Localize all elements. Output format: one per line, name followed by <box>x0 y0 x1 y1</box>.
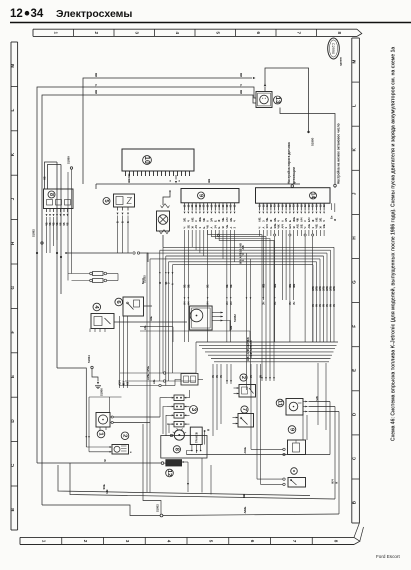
svg-text:А: А <box>172 283 175 285</box>
svg-text:Ж: Ж <box>334 218 337 221</box>
svg-text:Б: Б <box>202 227 206 229</box>
svg-text:5: 5 <box>208 540 213 543</box>
svg-text:З/Б: З/Б <box>229 218 233 222</box>
svg-text:Ж/Б: Ж/Б <box>247 356 250 361</box>
svg-text:Ч/К: Ч/К <box>202 217 206 222</box>
svg-text:12: 12 <box>10 8 23 20</box>
svg-text:ЗЧ: ЗЧ <box>273 301 277 305</box>
svg-text:3: 3 <box>135 32 140 35</box>
svg-text:7: 7 <box>292 540 297 543</box>
svg-text:Б: Б <box>288 220 292 222</box>
svg-text:Б: Б <box>117 221 120 223</box>
svg-text:АЧ: АЧ <box>186 301 190 305</box>
svg-text:Ч/Б: Ч/Б <box>265 217 269 222</box>
svg-text:Б: Б <box>127 221 130 223</box>
svg-text:6: 6 <box>250 540 255 543</box>
svg-text:1: 1 <box>97 432 103 436</box>
svg-text:А/Б: А/Б <box>190 217 194 222</box>
svg-text:АЧ: АЧ <box>194 225 198 229</box>
svg-text:2: 2 <box>121 434 127 438</box>
svg-text:З/Б: З/Б <box>322 224 326 228</box>
svg-text:НВ: НВ <box>207 178 211 183</box>
svg-text:ЗБ: ЗБ <box>183 284 187 288</box>
svg-text:E: E <box>351 369 356 372</box>
svg-text:ЗБ: ЗБ <box>186 225 190 229</box>
svg-text:51806: 51806 <box>100 388 104 396</box>
svg-text:н: н <box>179 180 181 182</box>
svg-text:АЧ: АЧ <box>260 374 263 378</box>
svg-text:8: 8 <box>337 32 342 35</box>
svg-text:Ч: Ч <box>303 227 307 229</box>
svg-text:З/Ч: З/Ч <box>284 218 288 222</box>
svg-text:Ч: Ч <box>239 84 243 86</box>
svg-text:Бе/Ч: Бе/Ч <box>142 278 145 284</box>
svg-text:З: З <box>198 227 202 229</box>
svg-text:А/Б: А/Б <box>143 325 147 330</box>
svg-text:M: M <box>351 59 356 63</box>
svg-text:Ж/Б: Ж/Б <box>240 259 243 264</box>
svg-text:НВ: НВ <box>242 494 246 498</box>
svg-text:З/Б: З/Б <box>318 218 322 222</box>
svg-text:M: M <box>10 64 15 68</box>
svg-text:7: 7 <box>241 408 247 411</box>
svg-text:34: 34 <box>31 8 44 20</box>
svg-text:8: 8 <box>334 540 339 543</box>
svg-text:14: 14 <box>309 192 315 198</box>
svg-text:ЗЛБ: ЗЛБ <box>323 286 326 291</box>
svg-text:А/Б: А/Б <box>258 217 262 222</box>
svg-text:L: L <box>10 109 15 112</box>
svg-text:НВ: НВ <box>94 72 98 77</box>
svg-text:НВ/НВ: НВ/НВ <box>127 173 131 183</box>
svg-text:Ford Escort: Ford Escort <box>376 554 400 559</box>
svg-text:7: 7 <box>297 32 302 35</box>
svg-text:ЧК: ЧК <box>206 225 210 229</box>
svg-text:З/ЧБ: З/ЧБ <box>146 366 150 372</box>
svg-text:4: 4 <box>93 305 99 309</box>
svg-text:ЗЛБ: ЗЛБ <box>316 286 319 291</box>
svg-text:3: 3 <box>125 540 130 543</box>
svg-text:C2990: C2990 <box>331 43 335 54</box>
svg-text:51802: 51802 <box>156 504 160 512</box>
svg-text:1: 1 <box>41 540 46 543</box>
svg-text:8: 8 <box>173 448 179 451</box>
svg-text:Ч: Ч <box>186 220 190 222</box>
svg-text:АЧ: АЧ <box>220 374 223 378</box>
svg-text:А/Б: А/Б <box>307 224 311 229</box>
svg-text:13: 13 <box>274 97 281 104</box>
svg-text:я: я <box>130 451 133 453</box>
svg-text:5: 5 <box>216 32 221 35</box>
svg-text:2: 2 <box>94 32 99 35</box>
svg-text:ЗЧ: ЗЧ <box>292 301 296 305</box>
svg-text:ЗЛБ: ЗЛБ <box>319 286 322 291</box>
svg-text:АЧ: АЧ <box>212 374 215 378</box>
svg-text:51824: 51824 <box>87 355 91 363</box>
svg-text:А/НБ: А/НБ <box>250 351 253 357</box>
svg-text:АЧ: АЧ <box>216 374 219 378</box>
svg-text:А/ЛБ: А/ЛБ <box>250 345 253 351</box>
svg-text:4: 4 <box>167 540 172 543</box>
svg-text:Ж: Ж <box>190 226 194 229</box>
svg-text:Б/Ч: Б/Ч <box>288 224 292 229</box>
svg-text:Электросхемы: Электросхемы <box>56 8 132 20</box>
svg-text:З: З <box>303 220 307 222</box>
svg-text:Ж: Ж <box>127 381 130 384</box>
svg-text:51882: 51882 <box>32 229 36 237</box>
svg-text:детонации: детонации <box>292 167 296 184</box>
svg-text:F: F <box>351 325 356 328</box>
svg-text:J: J <box>10 197 15 200</box>
svg-text:ЗЛБ: ЗЛБ <box>333 286 336 291</box>
svg-text:ЗБ: ЗБ <box>186 284 190 288</box>
svg-text:8: 8 <box>48 193 54 196</box>
svg-text:ЗЧ: ЗЧ <box>250 375 253 378</box>
svg-text:Настройка на низкое октановое: Настройка на низкое октановое число <box>337 123 341 184</box>
svg-text:J: J <box>351 192 356 195</box>
svg-text:Ж: Ж <box>311 219 315 222</box>
svg-text:А: А <box>229 227 233 229</box>
svg-text:6: 6 <box>115 300 121 304</box>
svg-text:З: З <box>194 220 198 222</box>
svg-text:11: 11 <box>276 400 282 407</box>
svg-text:АЧ: АЧ <box>312 303 315 307</box>
svg-text:З/Ч: З/Ч <box>210 218 214 222</box>
svg-text:ЗБ: ЗБ <box>225 284 229 288</box>
svg-text:1: 1 <box>54 32 59 35</box>
svg-text:АЧ: АЧ <box>333 303 336 307</box>
svg-text:НВ: НВ <box>94 89 98 94</box>
svg-text:3: 3 <box>190 408 197 412</box>
svg-text:н: н <box>170 180 172 182</box>
svg-text:АЧ: АЧ <box>326 303 329 307</box>
svg-text:З/Б: З/Б <box>240 248 243 252</box>
svg-text:А/ЛБ: А/ЛБ <box>146 374 150 380</box>
svg-text:НВ: НВ <box>44 176 47 180</box>
svg-text:Ж: Ж <box>221 226 225 229</box>
svg-text:А: А <box>210 227 214 229</box>
svg-text:НВ: НВ <box>239 72 243 77</box>
svg-text:Б: Б <box>213 220 217 222</box>
svg-text:Ч: Ч <box>277 220 281 222</box>
svg-text:Ч/Б: Ч/Б <box>315 224 319 229</box>
svg-text:З: З <box>261 220 265 222</box>
svg-text:Ж: Ж <box>292 226 296 229</box>
svg-text:З/Б: З/Б <box>273 218 277 222</box>
svg-text:З: З <box>311 227 315 229</box>
svg-text:Ч/К: Ч/К <box>277 224 281 229</box>
svg-text:А/НБ: А/НБ <box>243 447 247 453</box>
svg-text:З/Б: З/Б <box>299 224 303 228</box>
svg-text:Ч: Ч <box>258 227 262 229</box>
svg-text:ЖБ: ЖБ <box>273 284 277 288</box>
svg-text:А: А <box>261 227 265 229</box>
svg-text:ЗЧ: ЗЧ <box>213 225 217 229</box>
svg-text:Ж: Ж <box>336 481 339 484</box>
svg-text:Ж: Ж <box>217 219 221 222</box>
svg-text:Настройка порога датчика: Настройка порога датчика <box>287 142 291 184</box>
svg-text:АЧ: АЧ <box>319 303 322 307</box>
svg-text:Ж/Ч: Ж/Ч <box>332 479 335 484</box>
svg-text:ЗЛБ: ЗЛБ <box>330 286 333 291</box>
svg-text:Б: Б <box>217 227 221 229</box>
svg-text:ЗБ: ЗБ <box>229 284 233 288</box>
svg-text:А: А <box>280 220 284 222</box>
svg-text:9: 9 <box>288 428 294 432</box>
svg-text:9: 9 <box>197 194 203 197</box>
svg-text:АЧ: АЧ <box>206 301 210 305</box>
svg-text:А/Б: А/Б <box>315 217 319 222</box>
svg-text:Ч: Ч <box>233 220 237 222</box>
svg-text:А/Б: А/Б <box>149 316 153 321</box>
svg-text:2: 2 <box>83 540 88 543</box>
svg-text:АЧ: АЧ <box>323 303 326 307</box>
svg-text:Ж: Ж <box>159 281 162 284</box>
svg-text:Ч/Б: Ч/Б <box>221 217 225 222</box>
svg-text:Ч/К: Ч/К <box>296 217 300 222</box>
svg-text:АЧ: АЧ <box>225 301 229 305</box>
svg-text:Ч: Ч <box>183 227 187 229</box>
svg-text:Ж: Ж <box>269 219 273 222</box>
svg-text:НВ: НВ <box>239 89 243 94</box>
svg-text:З: З <box>233 227 237 229</box>
svg-text:ТРАНСФ: ТРАНСФ <box>195 431 199 443</box>
svg-text:З/Ч: З/Ч <box>119 380 122 384</box>
svg-text:Бл: Бл <box>331 215 334 219</box>
svg-text:51889: 51889 <box>67 156 71 164</box>
svg-text:Ж/Б: Ж/Б <box>292 217 296 222</box>
svg-text:А/НБ: А/НБ <box>243 507 247 514</box>
svg-text:F: F <box>10 331 15 334</box>
svg-text:НВ: НВ <box>105 489 109 493</box>
svg-text:ЗЛБ: ЗЛБ <box>312 286 315 291</box>
svg-text:Ж: Ж <box>318 226 322 229</box>
svg-text:А/Ч: А/Ч <box>280 224 284 229</box>
svg-text:Б: Б <box>269 227 273 229</box>
svg-text:АЧ: АЧ <box>316 303 319 307</box>
svg-text:А/Ч: А/Ч <box>299 217 303 222</box>
svg-text:L: L <box>351 104 356 107</box>
svg-text:А: А <box>206 220 210 222</box>
svg-text:4: 4 <box>175 32 180 35</box>
svg-text:З/Ч: З/Ч <box>265 224 269 228</box>
svg-text:5: 5 <box>103 199 109 202</box>
svg-text:G: G <box>351 280 356 284</box>
svg-text:Схема 46: Система впрыска топл: Схема 46: Система впрыска топлива K-Jetr… <box>390 47 397 441</box>
svg-text:АЧ: АЧ <box>330 303 333 307</box>
svg-text:G: G <box>10 285 15 289</box>
svg-text:АЧ: АЧ <box>229 301 233 305</box>
svg-text:Ж/Б: Ж/Б <box>198 217 202 222</box>
svg-text:10: 10 <box>143 156 150 164</box>
svg-text:ЧБ: ЧБ <box>225 225 229 229</box>
svg-text:А/Ч: А/Ч <box>225 217 229 222</box>
svg-text:А/ЛБ: А/ЛБ <box>240 252 243 258</box>
svg-text:А/Б: А/Б <box>250 340 253 345</box>
svg-text:E: E <box>10 375 15 378</box>
svg-text:ЖБ: ЖБ <box>288 284 292 288</box>
svg-text:Б: Б <box>122 221 125 223</box>
svg-text:Ч: Ч <box>322 220 326 222</box>
svg-text:однако: однако <box>340 57 343 66</box>
svg-text:Ж/Б: Ж/Б <box>273 223 277 228</box>
svg-text:ЗЛБ: ЗЛБ <box>326 286 329 291</box>
svg-text:Ч: Ч <box>94 84 98 86</box>
svg-text:ЗЧ: ЗЧ <box>261 301 265 305</box>
svg-text:Ж: Ж <box>103 459 107 463</box>
svg-text:2: 2 <box>240 376 246 379</box>
svg-text:51990: 51990 <box>311 137 315 146</box>
svg-text:51882: 51882 <box>233 314 237 322</box>
svg-text:З: З <box>168 282 171 284</box>
svg-text:6: 6 <box>256 32 261 35</box>
svg-text:ЖБ: ЖБ <box>261 284 265 288</box>
svg-text:12: 12 <box>166 470 172 477</box>
svg-text:Ч/Б: Ч/Б <box>316 396 319 400</box>
svg-text:ЖБ: ЖБ <box>292 284 296 288</box>
svg-text:З/Б: З/Б <box>183 218 187 222</box>
svg-text:А/Б: А/Б <box>152 379 156 384</box>
svg-text:ЗЧ: ЗЧ <box>288 301 292 305</box>
svg-text:З: З <box>284 227 288 229</box>
svg-text:ЗБ: ЗБ <box>206 284 210 288</box>
svg-text:АЧ: АЧ <box>183 301 187 305</box>
svg-text:А/Б: А/Б <box>296 224 300 229</box>
svg-text:Б/Ч: Б/Ч <box>307 217 311 222</box>
